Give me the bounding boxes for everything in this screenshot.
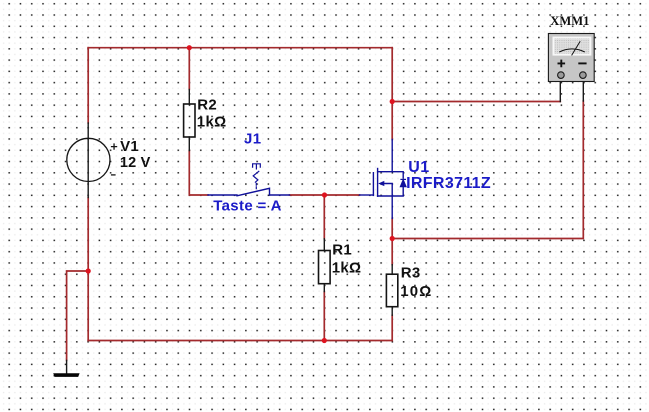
svg-text:J1: J1 xyxy=(244,130,261,147)
svg-text:10Ω: 10Ω xyxy=(400,283,432,300)
svg-text:R2: R2 xyxy=(197,97,217,114)
svg-text:XMM1: XMM1 xyxy=(550,14,589,28)
svg-text:R3: R3 xyxy=(401,265,421,282)
svg-text:12 V: 12 V xyxy=(120,155,151,171)
svg-text:1kΩ: 1kΩ xyxy=(197,113,227,130)
svg-text:U1: U1 xyxy=(408,159,429,176)
svg-text:R1: R1 xyxy=(332,242,352,259)
svg-text:1kΩ: 1kΩ xyxy=(332,259,362,276)
svg-text:Taste = A: Taste = A xyxy=(213,197,282,214)
svg-text:IRFR3711Z: IRFR3711Z xyxy=(406,175,491,192)
svg-text:V1: V1 xyxy=(120,138,139,155)
